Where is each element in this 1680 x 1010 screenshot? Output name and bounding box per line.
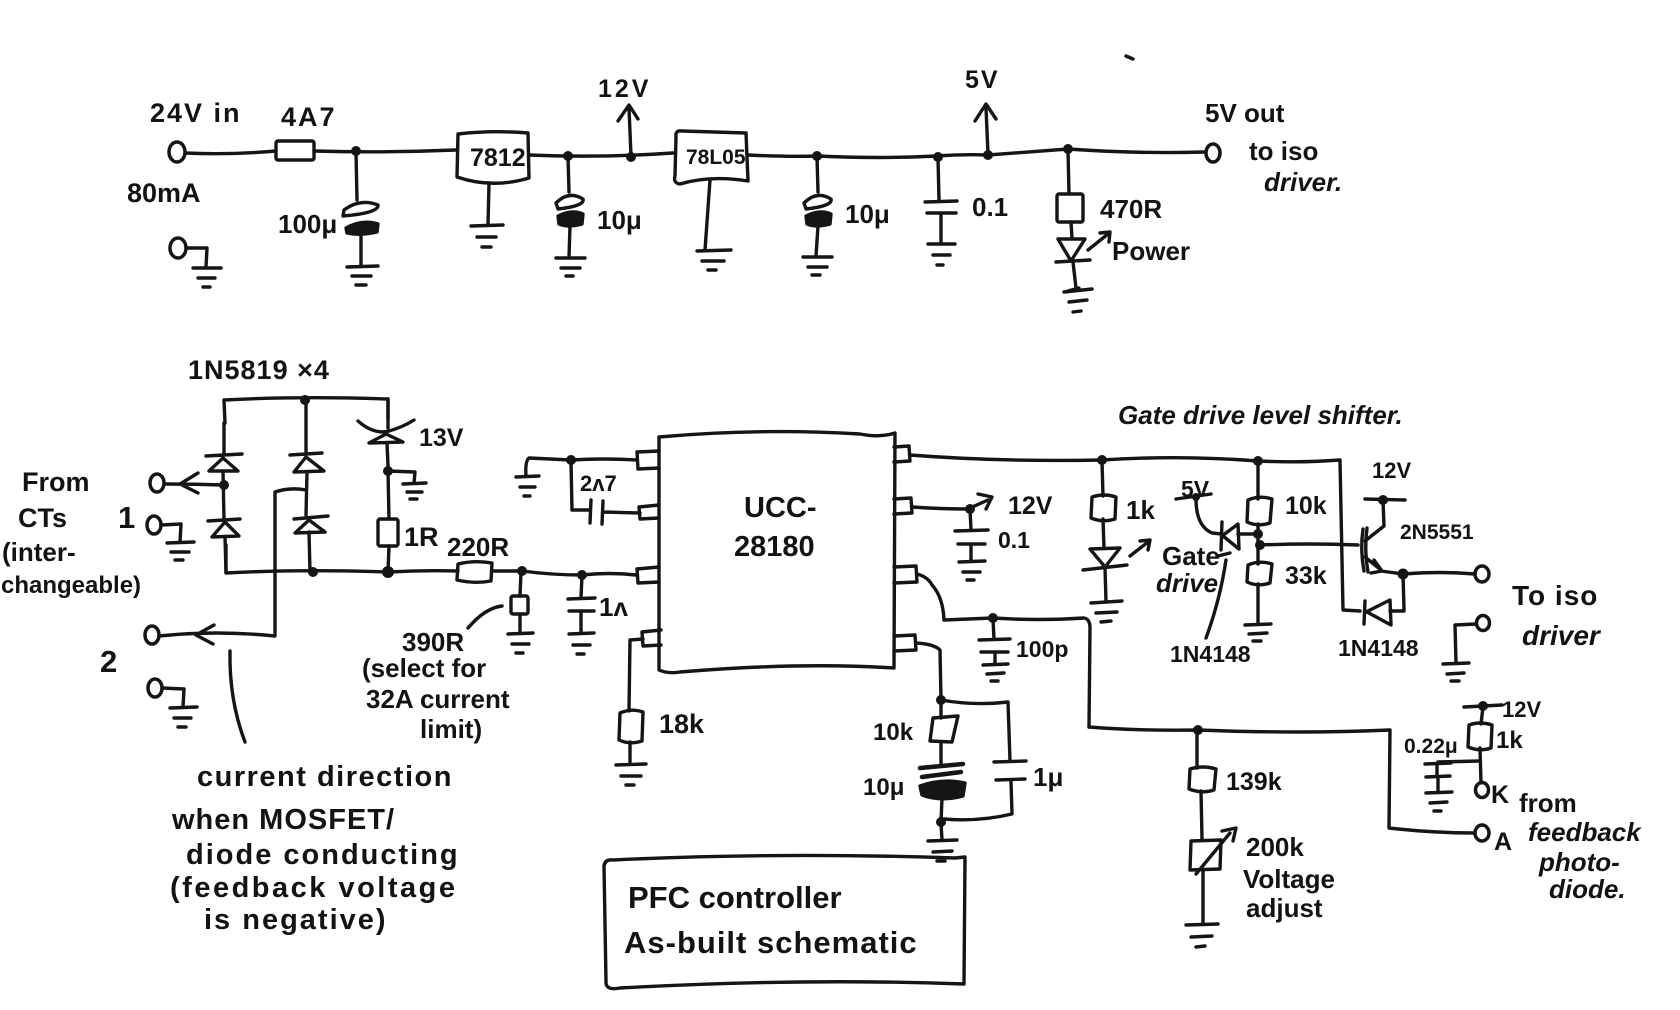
resistor 470R	[1057, 194, 1083, 222]
wire junction to 1n	[581, 575, 582, 598]
ground below 0.22u	[1426, 792, 1452, 811]
node bottom junction right	[382, 566, 394, 578]
node junction 10u a	[563, 151, 573, 161]
wire comp rail horizontal	[1089, 727, 1474, 833]
wire pin L4 to 18k	[629, 639, 643, 711]
ground below 10u a	[556, 258, 585, 276]
svg-text:1k: 1k	[1496, 727, 1523, 754]
svg-text:UCC-: UCC-	[744, 492, 817, 524]
ground 13V	[403, 483, 426, 499]
svg-text:200k: 200k	[1246, 832, 1304, 862]
ground pin L1 wire	[516, 476, 539, 496]
node junction 1n	[577, 570, 587, 580]
svg-text:100p: 100p	[1016, 636, 1068, 662]
wire zener junction to ground	[388, 471, 415, 483]
diode 1N4148 a	[1196, 499, 1258, 550]
capacitor 10u a	[556, 195, 583, 209]
wire pin L1 to left	[526, 458, 637, 476]
svg-text:10k: 10k	[873, 719, 914, 746]
svg-text:to iso: to iso	[1249, 136, 1318, 166]
node bottom junction mid	[308, 567, 318, 577]
resistor 10k	[1247, 497, 1272, 525]
svg-text:10μ: 10μ	[863, 774, 904, 801]
LED gate arrow	[1130, 540, 1150, 556]
svg-text:2: 2	[100, 644, 117, 679]
node junction 2n7	[566, 455, 576, 465]
wire 0.22u to 1k wire	[1438, 761, 1480, 762]
IC UCC28180	[659, 432, 895, 673]
wire pot to ground	[1201, 871, 1204, 924]
ground below 10u c	[928, 840, 957, 861]
resistor 18k	[619, 710, 643, 743]
svg-text:feedback: feedback	[1528, 817, 1642, 847]
ground terminal 2	[1443, 663, 1469, 681]
svg-text:(feedback voltage: (feedback voltage	[170, 872, 457, 904]
svg-text:100μ: 100μ	[278, 209, 337, 239]
resistor 10k b	[930, 716, 958, 742]
node 5V out terminal	[1206, 144, 1220, 162]
node 12V bottom tick	[1464, 705, 1502, 707]
svg-text:PFC controller: PFC controller	[628, 880, 842, 915]
diode D4 bottom-middle	[294, 516, 328, 572]
pin R2	[894, 498, 912, 514]
ground below 1n	[569, 633, 594, 654]
wire input to 4R7	[185, 151, 276, 154]
svg-text:18k: 18k	[659, 709, 705, 739]
svg-text:1: 1	[118, 500, 135, 535]
svg-text:33k: 33k	[1285, 562, 1327, 590]
svg-text:1k: 1k	[1126, 495, 1155, 525]
node junction 139k	[1193, 725, 1203, 735]
svg-text:1N4148: 1N4148	[1338, 635, 1419, 661]
wire zener to 1R	[388, 471, 389, 519]
svg-text:5V out: 5V out	[1205, 98, 1285, 128]
svg-text:10k: 10k	[1285, 492, 1327, 520]
wire 100u to ground	[359, 234, 362, 266]
node zener junction	[383, 466, 393, 476]
wire bridge bottom rail	[226, 545, 388, 573]
svg-text:12V: 12V	[598, 75, 651, 103]
svg-text:12V: 12V	[1372, 458, 1411, 483]
wire junction to 470R	[1068, 150, 1069, 194]
wire pin R2 to 12V	[912, 507, 970, 509]
wire junction down to 2n7	[571, 461, 572, 510]
diode D1 top-left	[206, 423, 242, 519]
wire junction to 0.1b	[970, 510, 971, 529]
ground below 18k	[616, 764, 646, 785]
svg-text:24V in: 24V in	[150, 98, 242, 128]
power flag 12V arrow	[618, 105, 638, 156]
node emitter junction	[1398, 569, 1409, 580]
svg-text:2ʌ7: 2ʌ7	[580, 471, 617, 496]
svg-text:12V: 12V	[1502, 697, 1541, 722]
svg-text:10μ: 10μ	[597, 205, 642, 235]
wire base	[1260, 544, 1358, 545]
power flag 5V arrow	[975, 104, 996, 154]
svg-text:139k: 139k	[1226, 768, 1282, 796]
svg-text:Gate: Gate	[1162, 541, 1220, 571]
svg-text:32A current: 32A current	[366, 684, 510, 714]
ground below LED	[1064, 288, 1092, 312]
ground below 0.1	[928, 244, 955, 265]
capacitor 1u	[994, 761, 1026, 780]
svg-text:1μ: 1μ	[1033, 762, 1063, 792]
wire junction to 390R	[520, 572, 521, 596]
power flag 12V mid arrow	[970, 494, 992, 509]
wire 1R to bottom rail	[388, 546, 389, 572]
node junction 0.1 cap	[933, 152, 943, 162]
wire 7812 to 78L05	[529, 153, 673, 156]
capacitor 100u	[343, 202, 378, 216]
svg-text:80mA: 80mA	[127, 178, 201, 208]
stray dot	[1126, 56, 1133, 59]
node 12V arrow junction	[626, 152, 636, 162]
svg-text:changeable): changeable)	[1, 572, 141, 599]
pin L4	[642, 630, 661, 646]
svg-text:5V: 5V	[965, 66, 1000, 94]
node junction 12V/0.1	[965, 504, 975, 514]
svg-text:4A7: 4A7	[281, 102, 337, 132]
box title	[604, 855, 965, 988]
wire 78L05 ground	[705, 180, 710, 250]
resistor 4R7	[276, 141, 314, 160]
svg-text:28180: 28180	[734, 531, 815, 563]
resistor 139k	[1189, 767, 1216, 792]
wire 0.1b to ground	[969, 545, 972, 561]
node junction 470R	[1063, 144, 1073, 154]
ground CT2 lower	[170, 707, 197, 727]
node A terminal	[1475, 825, 1489, 841]
node output terminal	[1475, 566, 1489, 582]
wire CT1 arrow	[165, 473, 224, 493]
wire CT2 lower to ground	[162, 688, 184, 707]
transistor 2N5551	[1362, 528, 1368, 572]
node 24V input terminal	[169, 142, 185, 162]
wire 10k to 33k	[1256, 461, 1259, 564]
node junction diode	[1253, 529, 1263, 539]
LED power	[1056, 222, 1090, 288]
node CT2 lower terminal	[148, 679, 162, 697]
resistor 390R	[511, 596, 528, 614]
regulator 7812	[457, 132, 529, 184]
svg-text:7812: 7812	[470, 144, 526, 172]
svg-text:470R: 470R	[1100, 194, 1162, 224]
svg-text:0.22μ: 0.22μ	[1404, 735, 1458, 758]
ground below 100u	[347, 266, 378, 285]
wire 33k to ground	[1256, 584, 1259, 624]
svg-text:1N4148: 1N4148	[1170, 641, 1251, 667]
svg-text:From: From	[22, 467, 90, 497]
wire 220R to UCC pin3	[492, 571, 636, 575]
svg-text:adjust: adjust	[1246, 893, 1323, 923]
wire 1k to LED	[1103, 519, 1104, 548]
ground below 33k	[1245, 624, 1271, 641]
svg-text:K: K	[1491, 781, 1509, 809]
wire 4R7 to 7812	[314, 150, 456, 152]
svg-text:13V: 13V	[419, 424, 464, 452]
ground below 100p	[983, 664, 1008, 681]
wire 10u b to ground	[816, 226, 818, 256]
svg-text:is negative): is negative)	[204, 904, 388, 936]
svg-text:0.1: 0.1	[998, 527, 1030, 553]
svg-text:1N5819 ×4: 1N5819 ×4	[188, 355, 330, 385]
svg-text:driver.: driver.	[1264, 167, 1342, 197]
pin L1	[637, 451, 659, 469]
wire return to ground	[186, 248, 207, 267]
wire 390R to ground	[518, 614, 521, 633]
wire junction to 1k	[1102, 461, 1103, 496]
wire terminal 2 to ground	[1455, 624, 1476, 663]
node 12V collector tick	[1365, 499, 1405, 500]
wire junction to 139k	[1195, 731, 1198, 768]
node CT1 junction	[219, 480, 229, 490]
svg-text:220R: 220R	[447, 532, 509, 562]
wire 1n to ground	[579, 612, 582, 633]
wire junction to ground	[941, 823, 942, 840]
wire 78L05 to 5V out	[748, 149, 1205, 158]
pin L3	[637, 567, 659, 583]
wire junction to 0.1	[938, 158, 939, 200]
svg-text:10μ: 10μ	[845, 199, 890, 229]
node input return terminal	[170, 238, 186, 258]
svg-text:Voltage: Voltage	[1243, 864, 1335, 894]
wire CT2 arrow to middle branch	[159, 489, 306, 644]
annotation curve to CT2	[230, 651, 245, 742]
svg-text:A: A	[1494, 828, 1512, 856]
wire bridge top rail	[224, 398, 388, 423]
svg-text:As-built schematic: As-built schematic	[624, 925, 918, 960]
pin L2	[639, 505, 659, 519]
ground below 0.1b	[959, 561, 985, 580]
node junction 1k	[1097, 455, 1107, 465]
ground below 200k	[1186, 924, 1218, 947]
node junction 10u bottom	[936, 817, 946, 827]
annotation arrow 390R	[468, 606, 502, 628]
node bridge top junction	[300, 395, 310, 405]
wire 10u a to ground	[569, 226, 570, 257]
resistor 33k	[1247, 562, 1272, 585]
capacitor 0.1	[925, 201, 957, 213]
svg-text:(inter-: (inter-	[2, 537, 76, 567]
svg-text:1ʌ: 1ʌ	[599, 592, 628, 622]
potentiometer 200k	[1190, 828, 1236, 874]
wire 0.22u to ground	[1436, 777, 1439, 792]
node 5V tick	[1176, 494, 1211, 499]
ground CT1 lower	[167, 542, 194, 560]
capacitor 0.22u	[1425, 763, 1451, 777]
svg-text:photo-: photo-	[1538, 847, 1620, 877]
wire pin R1 top rail	[910, 455, 1360, 611]
node CT1 terminal	[150, 474, 164, 492]
ground below 78L05	[697, 250, 731, 270]
node junction 10u b	[812, 151, 822, 161]
svg-text:Gate drive level shifter.: Gate drive level shifter.	[1118, 400, 1403, 430]
node CT2 terminal	[145, 626, 159, 644]
svg-text:diode.: diode.	[1549, 874, 1626, 904]
wire junction to 10u b	[817, 157, 818, 192]
ground below 390R	[508, 633, 533, 653]
wire junction to 100p	[993, 619, 994, 639]
wire 1k b to K	[1480, 748, 1481, 783]
svg-text:0.1: 0.1	[972, 192, 1008, 222]
svg-text:Power: Power	[1112, 236, 1190, 266]
ground below LED	[1091, 601, 1122, 622]
wire 10u c to junction	[941, 798, 942, 822]
node junction 100u	[351, 146, 361, 156]
diode 1N4148 b	[1364, 574, 1404, 625]
wire 18k to ground	[628, 742, 631, 764]
wire junction to 10k b	[939, 701, 942, 718]
svg-text:2N5551: 2N5551	[1400, 521, 1474, 544]
capacitor 1n	[568, 598, 595, 611]
wire pin R3 to comp rail	[917, 574, 1090, 727]
ground below 7812	[471, 225, 503, 247]
svg-text:78L05: 78L05	[686, 146, 746, 169]
pin R4	[894, 635, 916, 651]
ground input return	[193, 268, 221, 287]
capacitor 10u c polarized	[920, 764, 963, 777]
wire CT1 lower to ground	[161, 524, 181, 542]
node 5V arrow junction	[983, 150, 993, 160]
wire bottom rail to 220R	[388, 571, 458, 572]
node CT1 lower terminal	[147, 516, 161, 534]
node junction 100p	[988, 613, 998, 623]
wire emitter to output	[1403, 573, 1475, 575]
annotation slash 1N4148	[1206, 553, 1230, 638]
node junction 390R	[517, 566, 527, 576]
resistor 1R	[378, 519, 398, 546]
wire 1u branch	[941, 700, 1012, 820]
node output terminal 2	[1477, 616, 1490, 631]
node junction 10k top	[1253, 456, 1263, 466]
wire 12V to 1k b	[1481, 707, 1483, 724]
svg-text:when MOSFET/: when MOSFET/	[171, 804, 395, 836]
svg-text:(select for: (select for	[362, 653, 486, 683]
zener 13V	[358, 399, 414, 466]
resistor 1k	[1091, 495, 1116, 521]
diode D2 bottom-left	[208, 519, 240, 572]
wire junction to 10u a	[568, 157, 569, 192]
capacitor 0.1b	[955, 530, 988, 544]
node K terminal	[1476, 783, 1489, 798]
LED gate drive	[1083, 548, 1127, 602]
svg-text:limit): limit)	[420, 714, 482, 744]
wire 0.1 to ground	[939, 214, 942, 243]
svg-text:12V: 12V	[1008, 492, 1053, 520]
svg-text:from: from	[1519, 788, 1577, 818]
capacitor 10u b	[804, 195, 831, 209]
ground below 10u b	[803, 257, 832, 275]
wire 7812 ground	[488, 183, 489, 225]
capacitor 2n7	[572, 500, 640, 524]
pin R3	[894, 566, 917, 583]
svg-text:1R: 1R	[404, 522, 439, 552]
pin R1	[894, 446, 910, 462]
capacitor 100p	[979, 639, 1010, 652]
wire 139k to pot	[1201, 791, 1202, 839]
svg-text:diode conducting: diode conducting	[186, 839, 460, 871]
svg-text:current direction: current direction	[197, 761, 453, 793]
diode D3 top-middle	[290, 400, 324, 515]
node junction base	[1255, 540, 1265, 550]
LED arrow	[1088, 232, 1110, 250]
wire junction down to 100u	[356, 152, 357, 200]
regulator 78L05	[675, 131, 748, 184]
svg-text:driver: driver	[1522, 620, 1602, 651]
resistor 1k b	[1468, 723, 1492, 750]
svg-text:To iso: To iso	[1512, 580, 1598, 611]
wire 100p to ground	[993, 653, 996, 664]
wire 10k b to 10u c	[939, 742, 942, 765]
svg-text:CTs: CTs	[18, 503, 67, 533]
resistor 220R	[457, 562, 492, 583]
wire pin R4 down	[916, 643, 941, 700]
node junction 10k/1u top	[936, 695, 946, 705]
svg-text:drive: drive	[1156, 568, 1218, 598]
